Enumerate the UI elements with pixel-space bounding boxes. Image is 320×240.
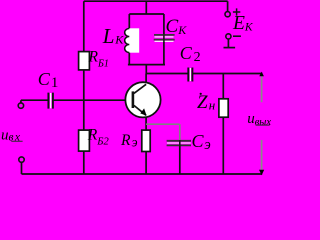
svg-text:Rэ: Rэ xyxy=(120,132,138,150)
